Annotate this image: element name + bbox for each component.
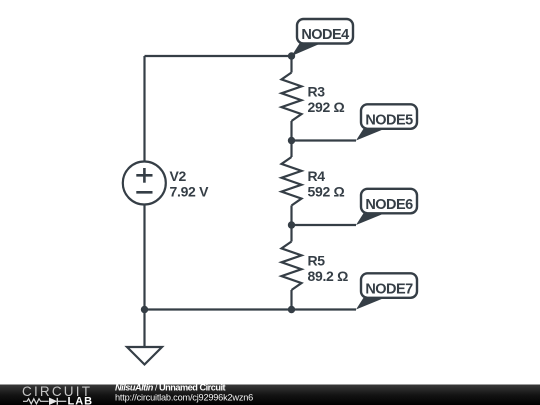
resistor R3 lead top [290, 56, 292, 73]
ground stem [143, 310, 145, 348]
svg-text:292 Ω: 292 Ω [308, 99, 345, 115]
flag box NODE4 [297, 19, 353, 44]
flag tail NODE4 [292, 44, 321, 57]
voltage source V2 circle [123, 162, 166, 205]
junction dot NODE6 [288, 221, 295, 228]
svg-text:LAB: LAB [68, 395, 94, 405]
logo diode triangle [49, 398, 57, 405]
wire bottom horizontal [145, 308, 357, 310]
voltage source plus sign [136, 168, 152, 183]
svg-text:NODE5: NODE5 [365, 112, 413, 128]
resistor R5 lead bottom [290, 290, 292, 310]
logo resistor-diode icon [23, 398, 66, 405]
resistor R4 lead bottom [290, 206, 292, 226]
svg-text:R4: R4 [308, 168, 326, 184]
flag box NODE7 [361, 273, 417, 298]
svg-text:NilsuAltin / Unnamed Circuit: NilsuAltin / Unnamed Circuit [115, 382, 225, 392]
junction dot ground left [141, 306, 148, 313]
junction dot NODE7 [288, 306, 295, 313]
flag box NODE5 [361, 104, 417, 129]
svg-text:R5: R5 [308, 253, 326, 269]
flag tail NODE6 [356, 213, 385, 225]
resistor R3 zigzag [282, 73, 302, 122]
flag tail NODE7 [356, 298, 385, 310]
voltage source minus sign [136, 191, 152, 194]
resistor R5 zigzag [282, 242, 302, 291]
svg-text:V2: V2 [170, 168, 187, 184]
resistor R5 lead top [290, 225, 292, 242]
ground triangle [127, 347, 162, 365]
svg-text:NODE6: NODE6 [365, 197, 413, 213]
resistor R4 zigzag [282, 157, 302, 206]
wire stub NODE5 [292, 139, 357, 141]
junction dot NODE5 [288, 137, 295, 144]
svg-text:http://circuitlab.com/cj92996k: http://circuitlab.com/cj92996k2wzn6 [115, 392, 253, 402]
svg-text:NODE7: NODE7 [365, 281, 413, 297]
wire stub NODE6 [292, 224, 357, 226]
resistor R3 lead bottom [290, 121, 292, 141]
footer bar [0, 385, 540, 405]
svg-text:7.92 V: 7.92 V [170, 184, 210, 200]
svg-text:NODE4: NODE4 [301, 27, 349, 43]
svg-text:R3: R3 [308, 84, 326, 100]
flag tail NODE5 [356, 129, 385, 141]
wire top horizontal (V2 top to NODE4 junction) [145, 55, 292, 57]
resistor R4 lead top [290, 141, 292, 158]
wire left upper vertical [143, 56, 145, 162]
junction dot NODE4 [288, 52, 295, 59]
svg-text:89.2 Ω: 89.2 Ω [308, 268, 349, 284]
flag box NODE6 [361, 189, 417, 214]
svg-text:592 Ω: 592 Ω [308, 184, 345, 200]
wire left lower vertical [143, 205, 145, 310]
